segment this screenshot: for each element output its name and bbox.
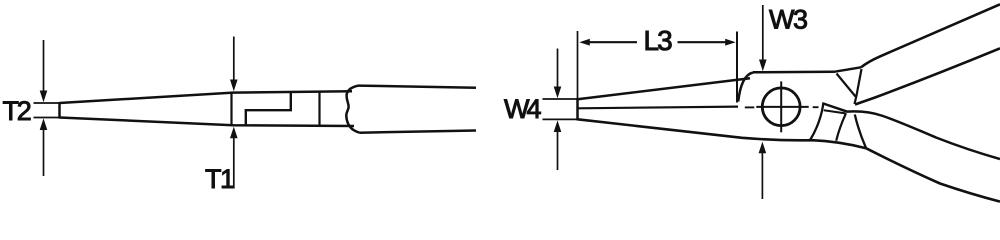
joint end vertical line xyxy=(318,91,320,125)
upper neck notch right edge xyxy=(855,69,862,104)
boss top edge xyxy=(753,67,861,72)
svg-text:W4: W4 xyxy=(504,94,541,124)
nose bottom outline into lower handle bottom line xyxy=(578,119,1000,201)
T2 bottom arrow (pointing up) xyxy=(43,130,45,177)
upper handle bottom line xyxy=(855,48,1000,104)
upper neck notch left edge xyxy=(837,74,856,97)
grip top outline xyxy=(358,86,476,88)
L3 right extension line xyxy=(736,32,738,103)
W3 bottom arrow (pointing up) xyxy=(761,153,763,200)
W4 bottom extension line xyxy=(543,118,578,120)
L3 left extension line xyxy=(577,31,579,98)
W4 top extension line xyxy=(543,98,578,100)
rivet circle xyxy=(762,88,800,126)
L3 dimension line with arrows xyxy=(588,41,637,43)
lower neck crossing edge xyxy=(855,115,866,148)
svg-text:L3: L3 xyxy=(644,25,673,56)
lower neck top bar and handle top line xyxy=(823,104,1000,160)
nose tip edge (side view) xyxy=(58,102,61,119)
T2 top arrow (pointing down) xyxy=(43,40,45,92)
T2 top extension line xyxy=(34,102,61,104)
W3 top arrow (pointing down) xyxy=(762,5,764,61)
lower neck sliver right edge xyxy=(836,113,846,141)
nose bottom outline (side view) xyxy=(60,118,355,127)
svg-text:T2: T2 xyxy=(3,96,31,126)
lower neck left vertical edge xyxy=(810,102,823,139)
upper handle top line xyxy=(861,4,1000,67)
boss corner fillet xyxy=(738,73,753,102)
lower neck middle bar xyxy=(824,110,846,113)
svg-text:T1: T1 xyxy=(205,164,234,194)
T1 top arrow (pointing down) xyxy=(233,37,235,81)
rivet cross horizontal bar xyxy=(756,106,808,108)
nose tip edge (top view) xyxy=(576,98,579,120)
svg-text:W3: W3 xyxy=(769,5,807,35)
T2 bottom extension line xyxy=(34,117,61,119)
lap joint step seam xyxy=(246,93,291,126)
grip bottom outline xyxy=(360,131,477,133)
grip left edge (wavy) xyxy=(346,86,359,133)
center line right dash xyxy=(813,106,819,108)
W4 top arrow (pointing down) xyxy=(557,49,559,88)
center line left dash xyxy=(745,106,755,108)
W4 bottom arrow (pointing up) xyxy=(557,131,559,170)
rivet cross vertical bar xyxy=(780,81,782,132)
jaw base vertical line xyxy=(230,93,232,126)
jaw seam line (top view) xyxy=(578,107,739,109)
nose top outline (side view) xyxy=(60,91,353,103)
nose top outline (top view) xyxy=(578,78,751,99)
T1 bottom arrow (pointing up) xyxy=(233,138,235,189)
